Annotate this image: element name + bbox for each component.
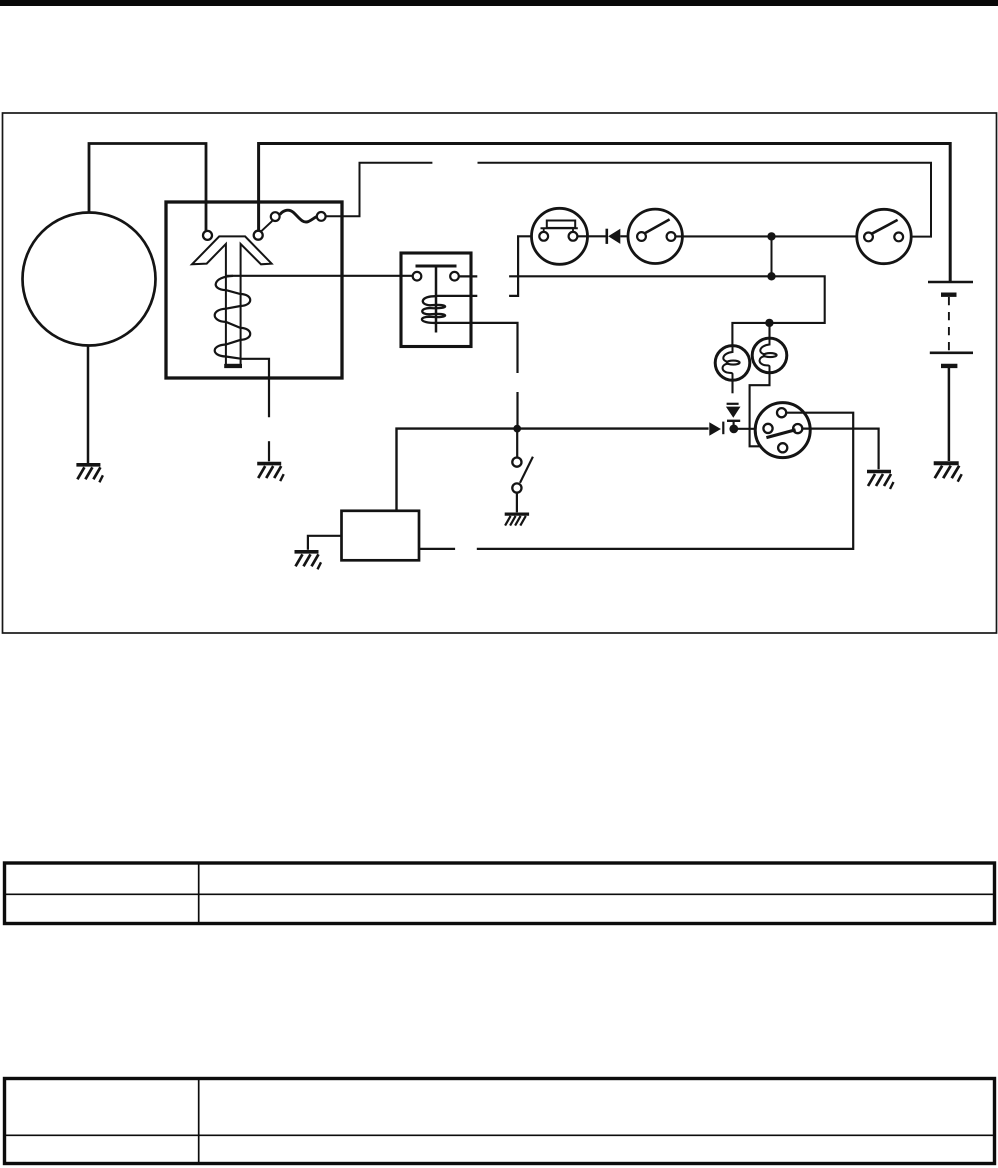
junction dot E kill branch	[513, 425, 521, 433]
fuse body	[547, 221, 575, 228]
dimmer terminal top	[777, 408, 786, 417]
regulator coil	[215, 276, 251, 359]
dimmer lever	[766, 430, 795, 438]
fuse terminal right	[569, 232, 578, 241]
terminal circle regulator right	[254, 231, 263, 240]
main switch terminal right	[667, 232, 676, 241]
breaker lever regulator	[261, 221, 272, 231]
relay armature stem	[435, 267, 438, 333]
table 1 outer	[5, 863, 995, 924]
ground battery	[934, 463, 962, 482]
bulb L2 filament	[760, 338, 769, 354]
generator G1	[23, 213, 156, 346]
wire bulb2 top	[768, 323, 770, 338]
wire battery to ground	[948, 367, 951, 461]
fuse base line	[541, 227, 578, 229]
battery plate short top	[941, 293, 957, 297]
diode D1 bar	[605, 229, 608, 244]
diode D2 stub top	[727, 403, 739, 405]
junction dot B	[767, 272, 775, 280]
kill switch contact top	[512, 458, 521, 467]
table 1 column divider	[198, 863, 200, 924]
diagram frame	[3, 113, 997, 633]
table 2 outer	[5, 1079, 995, 1164]
junction dot C	[765, 319, 773, 327]
wire diode D2 to junction	[733, 421, 735, 427]
wire fuse to diode	[578, 235, 606, 237]
ground regulator	[257, 464, 284, 482]
wire generator to ground	[87, 346, 90, 464]
wire bulb L2 to dimmer switch	[750, 373, 774, 447]
wire dimmer top to cdi run	[477, 413, 853, 549]
dimmer terminal left	[763, 424, 772, 433]
wire dimmer right to ground	[802, 429, 878, 470]
junction dot D	[729, 425, 738, 434]
dimmer terminal right	[793, 424, 802, 433]
wire fuse to relay hook	[509, 236, 539, 296]
wire junction A to B	[771, 236, 773, 276]
light switch S2	[857, 209, 911, 263]
ground dimmer	[867, 472, 894, 490]
diode D3 bar	[722, 422, 724, 435]
wire relay coil top	[436, 295, 477, 297]
light switch terminal left	[864, 233, 873, 242]
regulator core bottom bar	[224, 364, 242, 368]
relay box	[401, 253, 471, 347]
wire generator top feed	[89, 144, 206, 231]
wire kill switch to ground	[516, 493, 518, 513]
wire cdi stub	[419, 548, 455, 550]
wire diode to dimmer	[735, 428, 764, 430]
dimmer terminal bottom	[778, 443, 787, 452]
table 2 row divider	[3, 1134, 995, 1136]
kill switch contact bottom	[512, 483, 521, 492]
diode D2 triangle	[726, 407, 741, 418]
wire accessory run	[509, 276, 825, 346]
table 1 row divider	[3, 893, 995, 895]
main switch terminal left	[637, 232, 646, 241]
relay coil	[422, 296, 445, 323]
light switch terminal right	[894, 233, 903, 242]
ground cdi	[295, 552, 322, 570]
light switch lever	[872, 220, 898, 234]
battery plate long bottom	[930, 351, 973, 354]
diode D2 bar	[727, 420, 740, 422]
fuse F1	[532, 208, 588, 264]
wire diode to main switch	[620, 235, 637, 237]
ground kill switch	[505, 514, 529, 526]
bulb L1 filament	[723, 346, 732, 362]
wire relay right stub	[459, 275, 478, 277]
regulator box	[166, 202, 342, 378]
battery plate short bottom	[941, 364, 957, 368]
kill switch lever	[520, 457, 533, 483]
bulb L1	[715, 346, 750, 381]
diode D1 triangle	[608, 229, 620, 244]
fuse riser left	[543, 228, 545, 232]
fuse terminal left	[539, 232, 548, 241]
breaker wave element	[280, 210, 317, 222]
relay contact left	[413, 272, 422, 281]
header bar	[0, 0, 998, 6]
table 2 column divider	[198, 1079, 200, 1164]
junction dot A	[767, 232, 775, 240]
relay contact bar	[416, 265, 457, 268]
wire regulator ground lower segment	[268, 441, 270, 461]
relay contact right	[450, 272, 459, 281]
battery BT1 plate long top	[928, 281, 973, 284]
battery dashed cell link	[948, 297, 950, 351]
wire relay coil bottom	[436, 323, 518, 373]
wire breaker to lighting coil line	[326, 163, 433, 216]
wire lighting line right segment	[478, 163, 932, 237]
breaker circle small left	[271, 212, 280, 221]
wire battery feed top run	[259, 144, 951, 283]
CDI unit box	[342, 511, 420, 561]
main switch lever	[645, 219, 670, 233]
wire kill switch top	[516, 429, 518, 458]
dimmer switch S3	[755, 403, 810, 458]
bulb L2	[752, 338, 787, 373]
wire regulator to relay	[226, 275, 413, 277]
diode D3 triangle	[709, 422, 721, 436]
terminal circle regulator left	[203, 231, 212, 240]
wire regulator coil to ground	[241, 359, 270, 418]
regulator arrow core	[192, 236, 272, 365]
fuse riser right	[572, 228, 574, 232]
wire main switch to light switch	[676, 235, 865, 237]
wire bulb L1 bottom stub	[731, 380, 733, 393]
wire cdi to ground	[308, 536, 342, 550]
main switch S1	[628, 209, 682, 263]
wire kill branch lower segment	[516, 392, 518, 427]
wire main low run	[397, 429, 709, 511]
breaker circle small right	[317, 212, 326, 221]
ground generator	[76, 465, 103, 483]
